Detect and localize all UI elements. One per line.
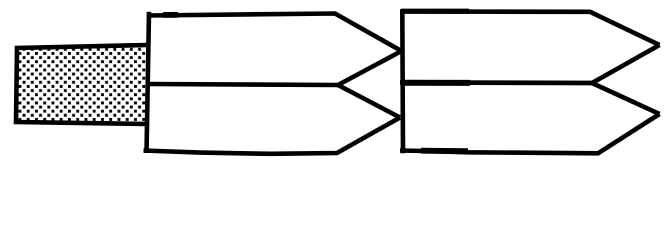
- fork diagonal up to top tip: [338, 51, 402, 85]
- fork diagonal up to top right tip: [592, 45, 660, 83]
- heavier first stretch of right top edge: [401, 9, 469, 14]
- pen blob on top edge: [163, 12, 178, 18]
- top right arrow: top edge and nose diagonal: [400, 12, 660, 46]
- stippled rectangle (leader box): [16, 45, 148, 124]
- shared middle line with fork (right group): [400, 80, 592, 85]
- fork diagonal down to bottom tip: [338, 85, 400, 118]
- heavier stretch of right bottom edge: [421, 148, 468, 154]
- middle arrows left vertical edge (wire): [147, 12, 150, 153]
- top middle arrow: top edge and nose diagonal: [147, 14, 402, 52]
- bottom middle arrow: bottom edge and nose diagonal: [144, 118, 401, 154]
- right arrows left vertical edge (wire): [400, 10, 405, 153]
- stippled rectangle border (open on right side): [16, 45, 147, 124]
- fork diagonal down to bottom right tip: [592, 83, 660, 114]
- double-drawn thick segment of right middle line: [401, 80, 470, 86]
- bottom right arrow: bottom edge and nose diagonal: [400, 114, 660, 153]
- shared middle line with fork (top arrow bottom / bottom arrow top): [147, 84, 338, 85]
